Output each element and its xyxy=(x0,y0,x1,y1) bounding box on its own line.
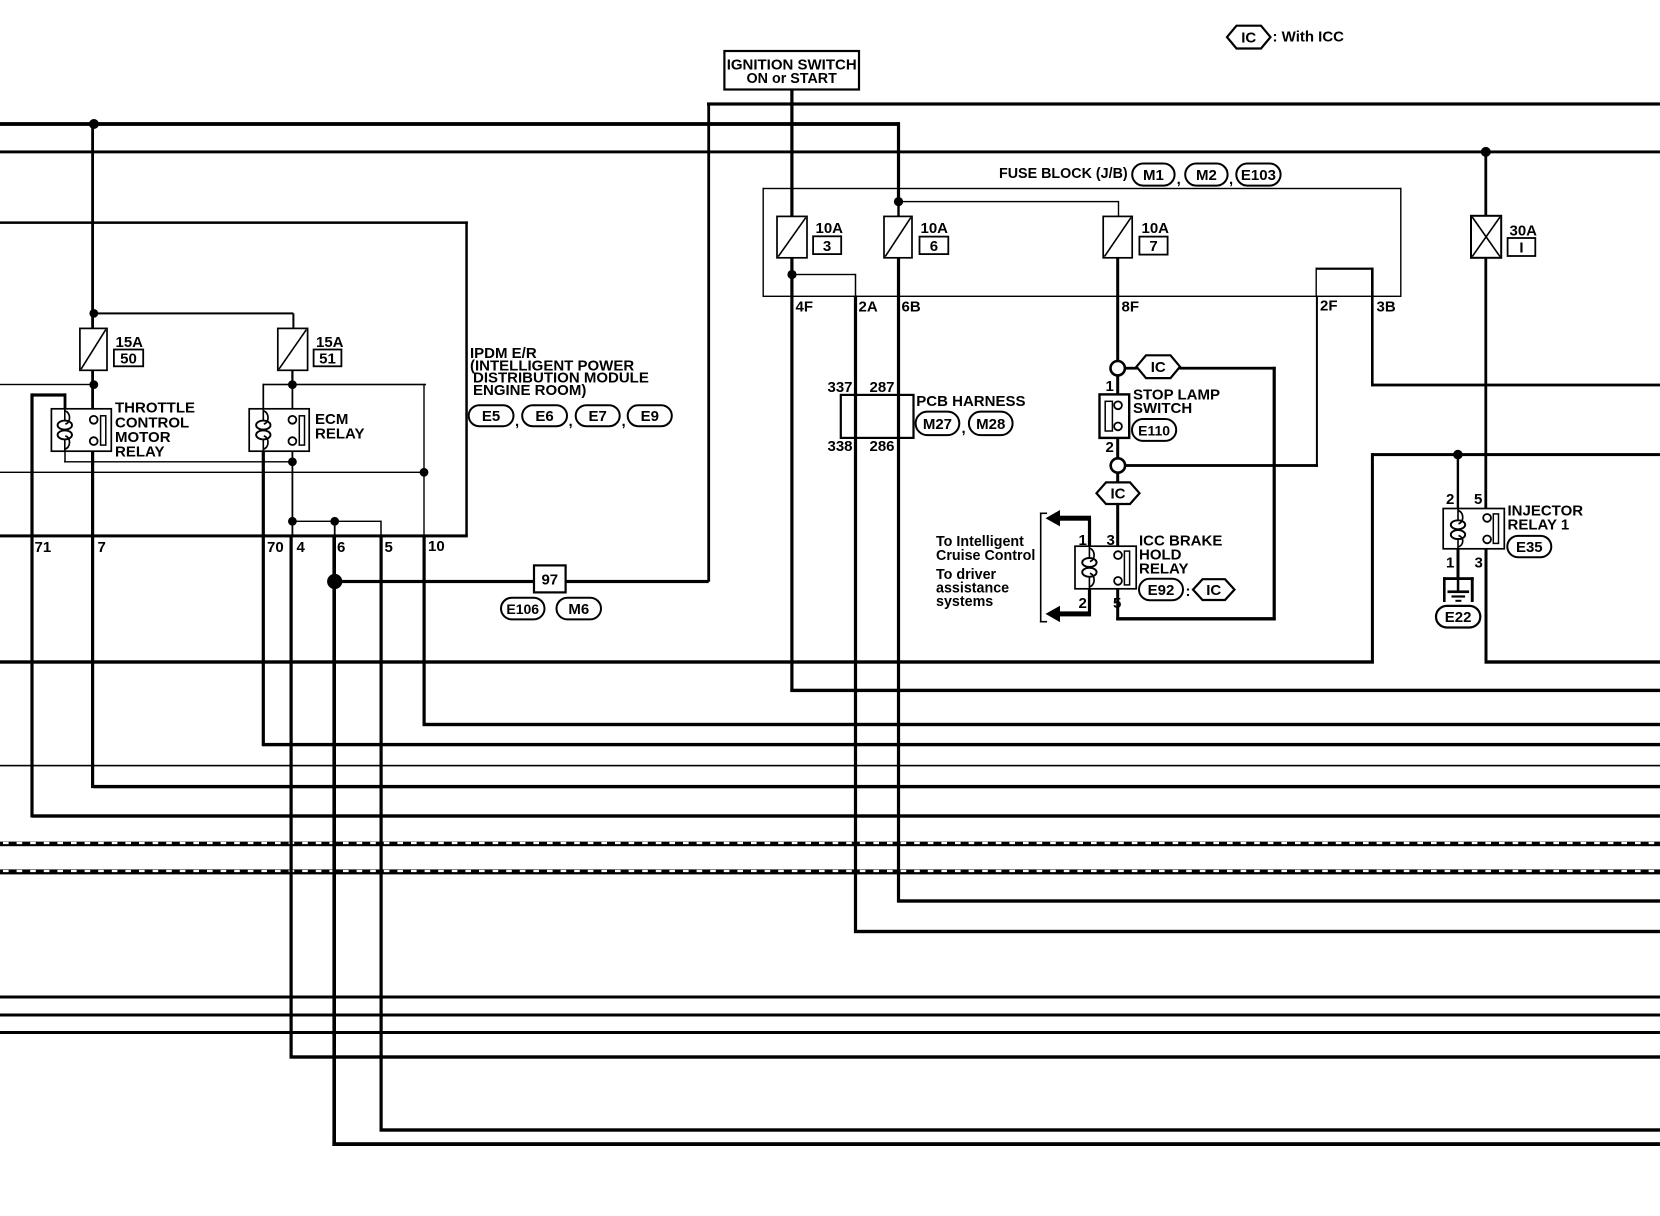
wire pin10 thin drop x424 xyxy=(423,385,424,536)
ECM relay coil xyxy=(256,409,270,451)
svg-text:systems: systems xyxy=(936,594,993,610)
svg-text:,: , xyxy=(1177,171,1181,188)
svg-text:E22: E22 xyxy=(1445,609,1472,626)
fuse 6 (10A) xyxy=(884,216,912,257)
IC hexagon at E92 xyxy=(1193,579,1235,600)
wire fusible link I to injector contact xyxy=(1484,258,1487,515)
connector E9 oval xyxy=(628,405,672,426)
svg-text:3: 3 xyxy=(1107,532,1115,549)
fuse 3 (10A) xyxy=(777,216,807,257)
wire 8F drop fuse7 to circle xyxy=(1116,258,1119,362)
wire bus y1057 (from IPDM pin4) xyxy=(290,1055,1660,1058)
wire fuse51 node to pin10 branch y384 xyxy=(263,384,427,386)
svg-text:51: 51 xyxy=(319,350,336,367)
junction y472 line / pin10 xyxy=(420,468,429,477)
stop lamp switch box xyxy=(1100,394,1130,438)
fuse block notch left side xyxy=(1316,268,1317,297)
connector E110 oval xyxy=(1132,419,1176,441)
connector M27 oval xyxy=(916,412,960,436)
wire ECM coil bottom / pin70 drop xyxy=(262,450,265,746)
svg-text:,: , xyxy=(1229,171,1233,188)
wire injector relay feed y454 xyxy=(1372,453,1660,456)
svg-text:2A: 2A xyxy=(859,299,878,316)
arrow to driver assistance systems (pin2) xyxy=(1046,589,1092,622)
svg-text:: With ICC: : With ICC xyxy=(1273,29,1345,46)
wire throttle coil top stub x65 xyxy=(64,393,67,409)
svg-text:E103: E103 xyxy=(1241,167,1276,184)
svg-text:E92: E92 xyxy=(1148,582,1175,599)
wire bus y1032 xyxy=(0,1031,1660,1034)
svg-text:3B: 3B xyxy=(1377,299,1396,316)
svg-text:,: , xyxy=(569,413,573,430)
node stop lamp pin2 circle xyxy=(1111,458,1125,472)
ground symbol E22 xyxy=(1443,577,1474,602)
wire 3B branch right y385 xyxy=(1372,384,1660,387)
fusible link letter box xyxy=(1508,238,1536,256)
svg-text:2F: 2F xyxy=(1320,298,1338,315)
wire pin4 drop to y1057 xyxy=(290,536,293,1059)
wire bus y816 (from IPDM pin71) xyxy=(32,814,1660,817)
connector E106 oval xyxy=(501,598,545,620)
wire injector coil pin2 from dot xyxy=(1457,455,1459,509)
svg-text:97: 97 xyxy=(541,572,558,589)
svg-text:M27: M27 xyxy=(923,416,952,433)
wire throttle coil/pin71 drop x33 xyxy=(30,393,33,817)
svg-text:E9: E9 xyxy=(641,408,659,425)
svg-text:M6: M6 xyxy=(568,601,589,618)
wire IC hexagon to ICC relay pin3 xyxy=(1116,504,1119,547)
svg-text:6: 6 xyxy=(337,539,345,556)
connector M1 oval xyxy=(1132,164,1174,186)
IPDM E/R box bottom edge xyxy=(0,534,468,537)
connector E35 oval xyxy=(1507,536,1551,557)
fuse 50 number box xyxy=(114,350,143,367)
wire bus battery feed upper-left xyxy=(0,122,900,126)
svg-text:IC: IC xyxy=(1206,582,1221,599)
fuse 3 number box xyxy=(813,236,841,254)
fuse 50 (15A) xyxy=(80,328,107,370)
connector M2 oval xyxy=(1185,164,1227,186)
junction injector coil feed y454 xyxy=(1453,450,1463,460)
svg-text:I: I xyxy=(1519,239,1523,256)
arrow to intelligent cruise control (pin1) xyxy=(1046,510,1092,546)
svg-text:5: 5 xyxy=(1113,595,1121,612)
svg-text:5: 5 xyxy=(1474,491,1482,508)
IPDM E/R box top edge xyxy=(0,221,468,224)
wire loop right side x1274 xyxy=(1273,367,1276,621)
svg-text:ON or START: ON or START xyxy=(747,71,838,87)
wire ECM contact bottom to pin4 nodes xyxy=(292,445,294,536)
throttle relay coil xyxy=(58,409,72,451)
wire pin10 drop to y724 xyxy=(423,536,426,726)
shield wire dashed bus y844 xyxy=(0,842,1660,847)
svg-text:RELAY: RELAY xyxy=(315,426,364,443)
svg-text:6: 6 xyxy=(930,238,938,255)
ICC relay contact xyxy=(1114,551,1130,585)
svg-text:8F: 8F xyxy=(1122,299,1140,316)
fusible link I (30A) xyxy=(1471,216,1501,258)
svg-text:IC: IC xyxy=(1151,359,1166,376)
throttle control motor relay box xyxy=(51,409,111,451)
svg-text:M1: M1 xyxy=(1143,167,1164,184)
junction bus y152 to fusible link I xyxy=(1481,147,1491,157)
wire internal IPDM y472 to pin10 node xyxy=(0,472,424,473)
svg-text:SWITCH: SWITCH xyxy=(1133,400,1192,417)
wire stub left edge to fuse 50 bottom node xyxy=(0,384,94,385)
ECM relay contact xyxy=(289,416,305,445)
fuse 7 (10A) xyxy=(1103,216,1132,257)
wire throttle contact to pin7 corner xyxy=(91,445,94,788)
svg-text:,: , xyxy=(622,413,626,430)
svg-text:287: 287 xyxy=(870,379,895,396)
svg-text:1: 1 xyxy=(1446,555,1454,572)
junction pin6 / y521 branch xyxy=(330,517,339,526)
wire bus y901 (from 6B) xyxy=(897,899,1660,902)
IC hexagon mid drop xyxy=(1097,482,1140,504)
svg-text:E7: E7 xyxy=(589,408,607,425)
junction pin4 / y521 branch xyxy=(288,517,297,526)
junction throttle coil return / pin4 xyxy=(288,457,297,466)
svg-text:70: 70 xyxy=(267,539,284,556)
injector relay 1 box xyxy=(1443,509,1504,549)
fuse block notch top edge xyxy=(1316,268,1374,270)
svg-text:286: 286 xyxy=(870,438,895,455)
wire pin5 stub from y521 xyxy=(380,521,382,536)
svg-text:10A: 10A xyxy=(921,220,949,237)
wire bus IGN feed top (from IPDM pin 6 via connector 97) xyxy=(707,102,1660,105)
wire pin5 drop to y1130 xyxy=(380,536,383,1132)
wire fuse50 feed drop x94 xyxy=(91,124,94,328)
svg-text:,: , xyxy=(962,420,966,437)
connector M28 oval xyxy=(969,412,1013,436)
svg-text:3: 3 xyxy=(1475,555,1483,572)
wire throttle relay coil top jog xyxy=(32,393,66,396)
wire bus y1144 (from IPDM pin6) xyxy=(332,1142,1660,1146)
wire bus y690 (from fuse 4F) xyxy=(790,689,1660,692)
svg-text:50: 50 xyxy=(120,350,137,367)
svg-text::: : xyxy=(1186,583,1191,600)
svg-text:3: 3 xyxy=(823,238,831,255)
ECM relay box xyxy=(249,409,309,451)
IC hexagon at stop lamp pin1 xyxy=(1137,355,1181,378)
svg-text:E106: E106 xyxy=(506,601,539,617)
wire injector pin1 to ground xyxy=(1457,549,1460,579)
wire 2A stub in fuse block xyxy=(855,274,857,297)
fuse block notch right side xyxy=(1371,268,1374,297)
svg-text:10A: 10A xyxy=(1142,220,1170,237)
fuse 51 number box xyxy=(314,350,342,367)
svg-text:Cruise Control: Cruise Control xyxy=(936,548,1035,564)
wire connector-97 line y582 xyxy=(335,580,709,583)
wire bus y1015 xyxy=(0,1014,1660,1017)
wire ECM contact top from fuse51 node xyxy=(292,385,294,417)
svg-text:PCB HARNESS: PCB HARNESS xyxy=(916,393,1025,410)
svg-text:2: 2 xyxy=(1079,595,1087,612)
svg-text:IC: IC xyxy=(1241,30,1256,47)
svg-text:2: 2 xyxy=(1446,491,1454,508)
fuse 51 (15A) xyxy=(278,328,308,370)
svg-text:RELAY: RELAY xyxy=(1139,561,1188,578)
wire bus thin y765 xyxy=(0,765,1660,767)
svg-text:10A: 10A xyxy=(816,220,844,237)
wire fuse50/51 feed link y313 xyxy=(93,312,294,314)
junction fuse51 bottom node xyxy=(288,380,297,389)
wire fusible link I feed x1486 xyxy=(1484,152,1487,216)
fuse block (J/B) outline left edge xyxy=(763,188,764,297)
wire ignition switch drop x792 upper xyxy=(790,88,793,216)
fuse block (J/B) outline bottom edge xyxy=(763,296,1402,297)
junction fuse6 top node xyxy=(894,197,903,206)
injector relay coil xyxy=(1451,509,1465,549)
wire battery corner drop x898 to fuse6 node xyxy=(897,122,900,201)
wire bus y662 right segment (from injector pin3) xyxy=(1485,660,1660,663)
svg-text:E110: E110 xyxy=(1138,422,1170,438)
wire stop lamp switch to circle2 xyxy=(1116,438,1119,459)
wire pin4 node to pin5 branch y521 xyxy=(291,521,382,522)
wire bus y744 (from IPDM pin70) xyxy=(263,743,1660,746)
svg-text:FUSE BLOCK (J/B): FUSE BLOCK (J/B) xyxy=(999,166,1128,182)
svg-text:10: 10 xyxy=(428,538,445,555)
wire fuse51 top corner drop xyxy=(292,313,294,328)
wire stop lamp circle1 to switch box xyxy=(1116,375,1119,394)
svg-text:RELAY: RELAY xyxy=(115,444,164,461)
wire connector97 riser x709 xyxy=(707,103,710,582)
wire 2F to stop lamp pin2 y465 xyxy=(1125,464,1318,467)
svg-text:RELAY 1: RELAY 1 xyxy=(1508,517,1570,534)
svg-text:M28: M28 xyxy=(976,416,1005,433)
wire 2A drop x855 xyxy=(854,296,857,933)
svg-text:2: 2 xyxy=(1106,439,1114,456)
svg-text:E35: E35 xyxy=(1516,539,1543,556)
wire ECM coil top from y384 corner xyxy=(262,384,264,410)
wire fuse51 bottom to node xyxy=(291,370,293,385)
svg-text:337: 337 xyxy=(828,379,853,396)
svg-text:1: 1 xyxy=(1106,378,1114,395)
wire injector-feed riser x1372 (y454-y662) xyxy=(1371,453,1374,663)
svg-text:15A: 15A xyxy=(116,334,144,351)
shield wire dashed bus y872 xyxy=(0,869,1660,874)
wire injector pin3 drop xyxy=(1485,549,1488,664)
wire stop lamp pin1 circle to IC hexagon xyxy=(1124,367,1137,370)
throttle relay contact xyxy=(90,416,106,445)
fuse 7 number box xyxy=(1139,237,1167,255)
wire 2F drop x1317 xyxy=(1316,296,1318,467)
PCB harness box xyxy=(841,395,914,438)
svg-text:4: 4 xyxy=(297,539,306,556)
wire fuse3 bottom to 2A jog y274 xyxy=(791,274,856,275)
svg-text:E6: E6 xyxy=(535,408,553,425)
IPDM E/R box right edge xyxy=(465,221,468,535)
fuse 6 number box xyxy=(920,237,949,255)
svg-text:6B: 6B xyxy=(902,299,921,316)
wire bus y662 left segment xyxy=(0,660,1374,663)
wire fuse6 node to fuse7 top y201 xyxy=(898,201,1119,202)
svg-text:M2: M2 xyxy=(1196,167,1217,184)
ICC relay coil xyxy=(1082,546,1096,589)
junction fuse3 bottom node xyxy=(787,270,796,279)
connector 97 box xyxy=(534,565,566,592)
junction pin6 / connector97 line xyxy=(327,574,342,589)
fuse block (J/B) outline top edge xyxy=(763,188,1402,189)
wire 3B drop x1372 xyxy=(1371,296,1374,387)
connector E92 oval xyxy=(1139,579,1183,600)
svg-text:,: , xyxy=(515,413,519,430)
wire fuse50 bottom to throttle contact xyxy=(91,370,94,416)
wire bus full-width y152 xyxy=(0,150,1660,153)
wire bus y724 (from IPDM pin10) xyxy=(423,723,1660,726)
wire bus y786 (from IPDM pin7) xyxy=(93,785,1660,788)
wire throttle coil bottom to y462 xyxy=(64,450,66,462)
ICC brake hold relay box xyxy=(1075,546,1136,589)
wire pin6 drop to y1144 xyxy=(332,536,336,1146)
wire bus y931 (from 2A) xyxy=(854,930,1660,933)
wire throttle coil return to pin4 node y462 xyxy=(64,461,293,462)
wire 4F drop x792 lower xyxy=(790,258,793,692)
wire 6B drop x898 xyxy=(897,258,900,903)
wire fuse6 top stub xyxy=(897,202,899,217)
svg-text:1: 1 xyxy=(1079,532,1087,549)
svg-text:338: 338 xyxy=(828,438,853,455)
wire circle2 to IC hexagon xyxy=(1116,472,1119,483)
wire bus y997 xyxy=(0,996,1660,999)
injector relay contact xyxy=(1483,514,1498,544)
junction fuse50 bottom node xyxy=(89,380,98,389)
connector E22 oval xyxy=(1436,606,1480,628)
svg-text:4F: 4F xyxy=(796,299,814,316)
connector E7 oval xyxy=(576,405,620,426)
connector E103 oval xyxy=(1236,164,1280,186)
legend IC hexagon xyxy=(1227,26,1271,49)
connector E5 oval xyxy=(469,405,514,426)
wire pin6 stub from y521 xyxy=(334,521,336,536)
junction battery bus x94 xyxy=(89,119,99,129)
svg-text:30A: 30A xyxy=(1510,223,1538,240)
svg-text:15A: 15A xyxy=(316,334,344,351)
junction fuse50/51 link xyxy=(89,309,98,318)
svg-text:IC: IC xyxy=(1111,486,1126,503)
ignition switch box xyxy=(724,51,859,90)
svg-text:7: 7 xyxy=(98,539,106,556)
wire IC hexagon to right loop xyxy=(1180,367,1276,370)
fuse block (J/B) outline right edge xyxy=(1400,188,1401,297)
svg-text:7: 7 xyxy=(1149,238,1157,255)
wire ICC relay pin5 to loop bottom xyxy=(1116,589,1119,621)
wire fuse7 top stub x1118 xyxy=(1118,201,1119,217)
svg-text:71: 71 xyxy=(35,539,52,556)
connector E6 oval xyxy=(522,405,567,426)
svg-text:ENGINE ROOM): ENGINE ROOM) xyxy=(473,382,586,399)
svg-text:5: 5 xyxy=(385,539,393,556)
bracket for destination labels xyxy=(1040,513,1047,623)
wire bus y1130 (from IPDM pin5) xyxy=(380,1128,1660,1131)
connector M6 oval xyxy=(557,598,602,620)
svg-text:E5: E5 xyxy=(482,408,500,425)
node stop lamp pin1 circle xyxy=(1111,361,1125,375)
wire ICC relay pin5 loop bottom y618 xyxy=(1116,617,1275,620)
